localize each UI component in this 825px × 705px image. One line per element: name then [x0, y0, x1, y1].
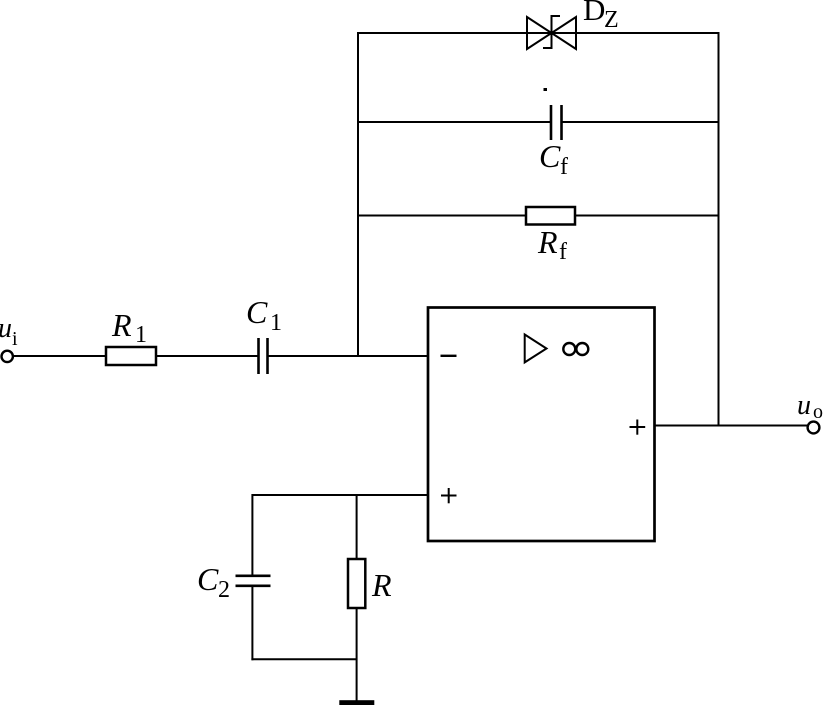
terminal uo	[808, 422, 820, 434]
resistor R1	[106, 347, 156, 365]
svg-text:u: u	[0, 313, 12, 344]
svg-text:i: i	[12, 328, 18, 350]
wire output	[655, 425, 808, 427]
svg-text:C: C	[197, 561, 219, 597]
op-amp plus input	[441, 488, 457, 503]
terminal ui	[2, 351, 13, 362]
wire C2 branch lower	[251, 586, 253, 661]
svg-text:2: 2	[218, 577, 230, 603]
svg-text:f: f	[560, 154, 568, 180]
wire noninverting input	[252, 494, 428, 496]
wire Rf branch	[358, 215, 719, 217]
wire right vertical node	[718, 32, 720, 426]
wire input mid	[156, 355, 259, 357]
wire R branch lower	[356, 608, 358, 701]
op-amp infinity symbol	[563, 343, 588, 355]
wire C2 branch upper	[251, 494, 253, 576]
resistor R	[348, 559, 365, 608]
zener diode pair DZ	[527, 16, 576, 49]
svg-text:Z: Z	[604, 7, 619, 33]
svg-text:R: R	[371, 567, 392, 603]
wire left vertical node	[357, 32, 359, 356]
stray dot	[544, 88, 548, 91]
wire top feedback branch	[358, 32, 719, 34]
wire Cf branch left	[358, 121, 551, 123]
wire input left	[13, 355, 106, 357]
svg-text:1: 1	[135, 322, 147, 348]
svg-text:C: C	[539, 138, 561, 174]
capacitor Cf	[551, 105, 562, 140]
wire R branch upper	[356, 494, 358, 559]
capacitor C1	[259, 338, 268, 374]
op-amp minus input	[441, 355, 457, 357]
wire bottom	[251, 658, 356, 660]
svg-text:f: f	[559, 239, 567, 265]
capacitor C2	[236, 576, 271, 586]
op-amp U1 box	[428, 308, 655, 542]
op-amp triangle symbol	[525, 335, 547, 363]
svg-text:o: o	[813, 401, 823, 423]
svg-text:C: C	[246, 294, 268, 330]
wire input right	[268, 355, 429, 357]
wire Cf branch right	[562, 121, 719, 123]
ground	[339, 700, 374, 705]
svg-text:u: u	[797, 390, 811, 421]
resistor Rf	[526, 207, 575, 225]
svg-text:1: 1	[270, 310, 282, 336]
svg-text:R: R	[537, 224, 558, 260]
op-amp output plus	[630, 420, 646, 435]
svg-text:R: R	[111, 307, 132, 343]
svg-text:D: D	[583, 0, 605, 27]
